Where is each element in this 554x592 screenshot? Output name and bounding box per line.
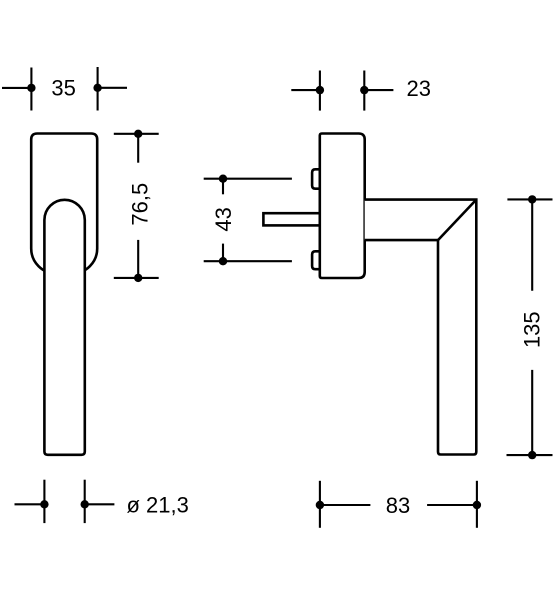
dimension 83: left mark xyxy=(316,481,371,528)
dimension 43: top mark xyxy=(204,175,292,195)
dimension 76,5: bottom mark xyxy=(114,240,159,282)
dimension ø 21,3: left mark xyxy=(15,480,49,523)
rosette side view (right view plate) xyxy=(320,134,365,279)
handle grip front view (U-top bar) xyxy=(44,200,84,455)
corner miter edge (diagonal) xyxy=(438,200,476,241)
dimension 23: left mark xyxy=(291,71,324,111)
dimension ø 21,3: right mark xyxy=(81,480,115,523)
handle side view (neck and grip L-shape) xyxy=(365,200,477,455)
dimension 35: left mark xyxy=(2,68,36,111)
dimension 23: right mark xyxy=(360,71,393,111)
svg-text:35: 35 xyxy=(51,76,75,101)
lower screw tab xyxy=(312,251,321,269)
svg-text:76,5: 76,5 xyxy=(128,183,153,226)
spindle shaft (square pin, side view) xyxy=(263,213,321,225)
dimension 135: top mark xyxy=(507,195,552,291)
svg-text:135: 135 xyxy=(519,311,544,348)
svg-text:23: 23 xyxy=(406,76,430,101)
dimension 43: bottom mark xyxy=(204,244,292,266)
svg-text:ø 21,3: ø 21,3 xyxy=(127,492,189,517)
dimension 76,5: top mark xyxy=(114,130,159,163)
upper screw tab xyxy=(312,169,321,188)
dimension 35: right mark xyxy=(93,67,127,111)
dimension 135: bottom mark xyxy=(507,370,553,459)
dimension 83: right mark xyxy=(427,481,481,528)
svg-text:43: 43 xyxy=(211,207,236,231)
rosette front view (left view backplate) xyxy=(31,134,97,274)
svg-text:83: 83 xyxy=(386,493,410,518)
